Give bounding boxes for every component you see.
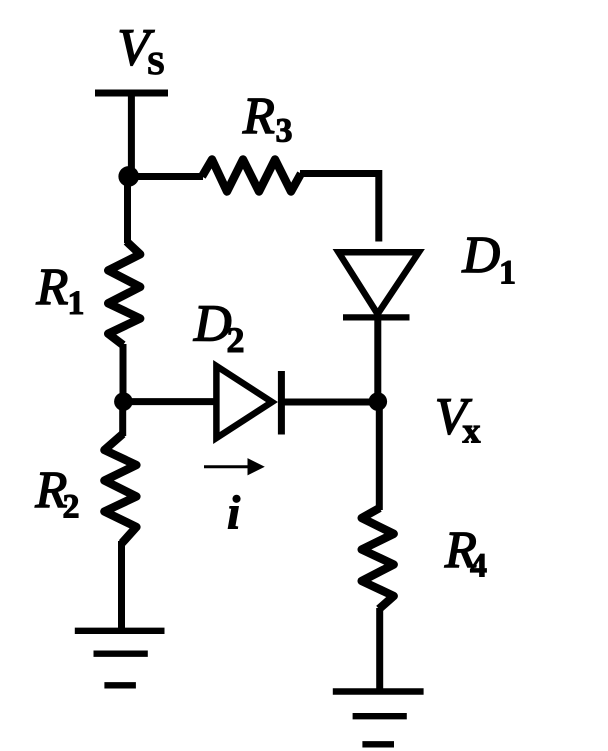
resistor R1: [108, 242, 140, 346]
wire node A to R1: [124, 176, 131, 243]
svg-text:1: 1: [499, 254, 516, 291]
svg-text:D: D: [462, 227, 501, 284]
wire R1 to node B: [120, 344, 127, 402]
label R3: [242, 88, 293, 150]
node Vx junction dot: [369, 392, 388, 411]
node A junction dot: [118, 166, 139, 187]
node B junction dot: [114, 392, 133, 411]
wire node B to R2: [119, 402, 126, 436]
wire node Vx to R4: [376, 402, 383, 510]
wire node A to R3: [131, 173, 203, 180]
wire D2 to node Vx: [284, 399, 378, 406]
svg-text:R: R: [242, 88, 275, 145]
wire node B to D2: [123, 398, 215, 405]
wire VS bar to node A: [128, 93, 135, 178]
resistor R4: [362, 508, 394, 609]
diode D1 triangle: [339, 252, 419, 314]
svg-text:2: 2: [63, 488, 80, 525]
svg-text:1: 1: [68, 285, 85, 322]
label R2: [35, 462, 80, 525]
diode D2 triangle: [216, 366, 272, 438]
svg-text:S: S: [147, 45, 165, 81]
resistor R3: [202, 160, 301, 192]
label R1: [36, 259, 85, 322]
svg-text:3: 3: [276, 113, 293, 150]
svg-text:2: 2: [227, 320, 245, 360]
label i: [227, 486, 241, 539]
power rail bar VS: [95, 90, 168, 97]
wire R2 to ground: [118, 541, 125, 631]
svg-text:x: x: [463, 411, 481, 451]
diode D1 cathode bar: [343, 314, 410, 320]
label Vx: [435, 388, 481, 450]
ground right: [333, 692, 424, 745]
resistor R2: [104, 434, 136, 543]
label D1: [462, 227, 517, 291]
wire R3 to corner down to D1: [300, 174, 379, 242]
label VS: [118, 20, 165, 82]
wire R4 to ground: [376, 608, 383, 692]
label R4: [444, 522, 487, 584]
label D2: [193, 296, 245, 360]
current arrow i: [204, 458, 265, 475]
wire D1 to node Vx: [374, 319, 381, 402]
diode D2 cathode bar: [278, 371, 285, 435]
svg-text:4: 4: [470, 547, 487, 584]
ground left: [75, 631, 165, 686]
svg-text:R: R: [36, 259, 69, 316]
svg-text:i: i: [227, 486, 241, 539]
